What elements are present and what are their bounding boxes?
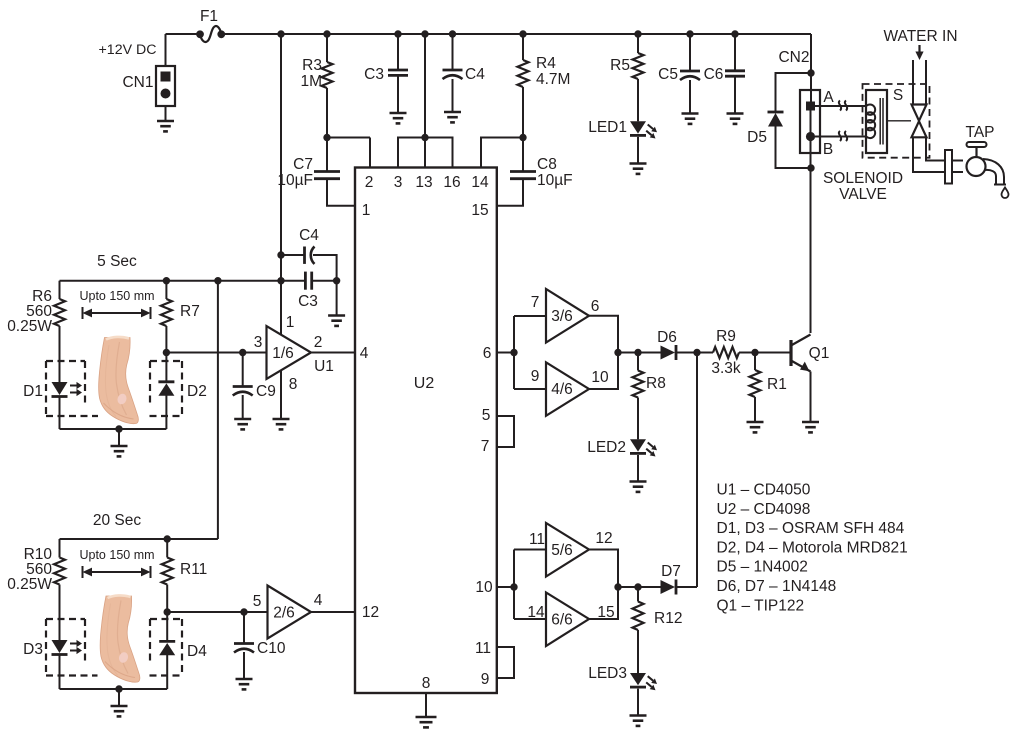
U2 pins 11-9 bracket	[497, 647, 514, 678]
wire 4/6 input	[514, 388, 546, 390]
svg-text:13: 13	[415, 174, 432, 191]
wire pin2 drop	[327, 138, 370, 168]
wire coil to valve	[888, 120, 911, 122]
capacitor C6	[725, 34, 745, 114]
node D7 riser top	[693, 349, 700, 356]
wire D2 down	[165, 396, 167, 430]
svg-text:5: 5	[482, 407, 491, 424]
resistor R5	[633, 34, 644, 121]
node sensor2 gnd	[115, 685, 122, 692]
label R1	[767, 376, 787, 393]
node pin13 junction	[421, 134, 428, 141]
label pin 10 (4/6)	[591, 369, 609, 386]
node R12 tap	[634, 583, 641, 590]
svg-text:C9: C9	[256, 383, 276, 400]
label pin 15	[471, 202, 488, 219]
svg-text:9: 9	[481, 671, 490, 688]
svg-text:0.25W: 0.25W	[7, 318, 52, 335]
svg-text:B: B	[823, 141, 833, 158]
IC U2 box	[355, 168, 497, 694]
svg-text:0.25W: 0.25W	[7, 576, 52, 593]
pipe below valve + elbow	[913, 138, 945, 173]
wire CN2 B to node	[810, 141, 812, 168]
hand image 1	[98, 332, 148, 428]
capacitor C4 (top)	[443, 34, 463, 112]
capacitor C7 10uF	[314, 138, 355, 206]
label C9	[256, 383, 276, 400]
svg-text:10µF: 10µF	[537, 172, 573, 189]
node buffers2-out join	[614, 583, 621, 590]
label D3	[23, 641, 43, 658]
svg-text:C10: C10	[257, 640, 286, 657]
svg-text:5 Sec: 5 Sec	[97, 253, 137, 270]
label +12V DC	[99, 42, 157, 58]
wire riser to 20sec	[217, 281, 219, 539]
label pin 12	[362, 604, 379, 621]
label C8 10uF	[537, 156, 573, 189]
label pin 15 (6/6)	[597, 604, 614, 621]
svg-text:LED1: LED1	[588, 119, 627, 136]
label 6/6	[551, 612, 573, 629]
wire LED2 to ground	[637, 455, 639, 482]
parts list	[717, 482, 908, 615]
label pin 3	[394, 174, 403, 191]
wire 6/6 output	[589, 587, 618, 619]
wire sensor2 gnd stub	[118, 689, 120, 706]
photodiode D4	[159, 641, 175, 655]
svg-text:TAP: TAP	[966, 124, 995, 141]
ground under U1 pin8	[273, 419, 290, 429]
svg-text:C4: C4	[465, 66, 485, 83]
wire 5/6 input	[514, 549, 546, 551]
label pin 4	[360, 345, 369, 362]
cable-break marks A	[839, 101, 847, 111]
wire sensor2 to 2/6 input	[167, 611, 267, 613]
transistor Q1 TIP122	[791, 335, 811, 423]
svg-text:R3: R3	[302, 57, 322, 74]
node R11-U1 tap	[164, 608, 171, 615]
svg-text:R1: R1	[767, 376, 787, 393]
svg-text:8: 8	[289, 376, 298, 393]
LED3	[630, 673, 657, 690]
diode D5	[768, 73, 812, 168]
label D4	[187, 643, 207, 660]
label R6 560 0.25W	[7, 288, 52, 335]
svg-text:CN2: CN2	[778, 49, 809, 66]
label C5	[658, 66, 678, 83]
node R1 tap	[751, 349, 758, 356]
svg-text:S: S	[893, 87, 903, 104]
ground under Q1	[802, 422, 819, 432]
water-in arrow	[915, 45, 923, 60]
label C7 10uF	[277, 156, 313, 189]
label R5	[610, 57, 630, 74]
dashed box D1	[46, 361, 182, 416]
svg-text:5: 5	[253, 593, 262, 610]
svg-text:7: 7	[481, 438, 490, 455]
node C3-C4 join	[333, 277, 340, 284]
ground under CN1	[157, 121, 174, 131]
svg-text:CN1: CN1	[122, 74, 153, 91]
op-amp buffer 5/6	[546, 523, 589, 577]
label pin 2	[365, 174, 374, 191]
svg-text:U1 – CD4050: U1 – CD4050	[717, 482, 811, 499]
svg-text:15: 15	[471, 202, 488, 219]
resistor R7	[161, 281, 172, 382]
label pin 7	[481, 438, 490, 455]
wire R9 to Q1 base	[739, 352, 790, 354]
ground under C6	[727, 114, 744, 124]
wire rail to CN2	[810, 34, 812, 102]
svg-text:6: 6	[483, 345, 492, 362]
resistor R9 3.3k	[713, 347, 739, 358]
wire pins 3-16 bridge	[398, 138, 453, 168]
diode D7	[661, 580, 677, 595]
wire join to D6	[618, 352, 661, 354]
label 3.3k	[711, 360, 741, 377]
svg-text:VALVE: VALVE	[839, 186, 887, 203]
label D2	[187, 383, 207, 400]
node CN2 bottom	[807, 164, 814, 171]
svg-text:14: 14	[527, 604, 545, 621]
node R7-U1 tap	[163, 349, 170, 356]
LED2	[630, 439, 657, 456]
node rail-pin13	[421, 30, 428, 37]
wire split riser (5/6,6/6)	[513, 550, 515, 620]
wire 2/6 out to pin12	[311, 611, 355, 613]
svg-text:C7: C7	[293, 156, 313, 173]
ground under C10	[236, 679, 253, 689]
svg-text:10: 10	[591, 369, 609, 386]
photodiode D1 (IR LED)	[52, 382, 83, 397]
label 4/6	[551, 381, 573, 398]
node C10 tap	[240, 608, 247, 615]
label 1/6	[272, 345, 294, 362]
svg-text:12: 12	[362, 604, 379, 621]
node R7 top	[163, 277, 170, 284]
svg-text:16: 16	[443, 174, 460, 191]
label 5/6	[551, 542, 573, 559]
label F1	[200, 8, 218, 25]
node C4-series top	[277, 251, 284, 258]
svg-text:+12V DC: +12V DC	[99, 42, 157, 58]
resistor R12	[633, 587, 644, 673]
diode D6	[661, 345, 677, 360]
label pin 3	[254, 334, 263, 351]
node buffers-out join	[614, 349, 621, 356]
label Upto 150 mm (1)	[79, 289, 154, 303]
label R7	[180, 303, 200, 320]
range arrow (2)	[83, 566, 151, 578]
svg-text:3: 3	[254, 334, 263, 351]
label C4	[465, 66, 485, 83]
resistor R8	[633, 353, 644, 440]
label C4 series	[299, 227, 319, 244]
svg-text:C6: C6	[704, 66, 724, 83]
label pin 1	[362, 202, 371, 219]
photodiode D2	[158, 382, 174, 396]
ground under LED1	[630, 164, 647, 174]
cable-break marks B	[839, 131, 847, 141]
ground under LED2	[630, 482, 647, 492]
wire sensor1 to U1 input	[166, 352, 266, 354]
resistor R10 560	[54, 539, 65, 640]
node C3-series	[277, 277, 284, 284]
node rail-C5	[686, 30, 693, 37]
svg-text:6: 6	[591, 298, 600, 315]
label terminal B	[823, 141, 833, 158]
label LED3	[588, 665, 627, 682]
svg-text:3/6: 3/6	[551, 308, 573, 325]
wire D7 to riser	[676, 586, 697, 588]
label pin 8	[422, 675, 431, 692]
ground under LED3	[630, 716, 647, 726]
svg-text:R7: R7	[180, 303, 200, 320]
wire CN2 inner	[810, 111, 812, 133]
svg-text:R5: R5	[610, 57, 630, 74]
svg-text:Upto 150 mm: Upto 150 mm	[79, 548, 154, 562]
label pin 13	[415, 174, 432, 191]
node rail-branch	[277, 30, 284, 37]
label pin 12 (5/6)	[595, 530, 612, 547]
wire A to solenoid	[815, 105, 867, 107]
capacitor C3 (series)	[281, 272, 337, 290]
svg-text:A: A	[823, 89, 834, 106]
label CN1	[122, 74, 153, 91]
label pin 16	[443, 174, 460, 191]
pipe above valve	[913, 60, 926, 105]
label pin 11 (5/6)	[529, 531, 545, 548]
hand image 2	[98, 591, 148, 687]
op-amp buffer U1 1/6	[267, 326, 312, 379]
label U1	[314, 358, 334, 375]
ground under U2 pin8	[416, 717, 437, 727]
label pin 9	[481, 671, 490, 688]
wire rail branch down	[280, 34, 282, 335]
svg-text:9: 9	[531, 368, 540, 385]
svg-text:Q1 – TIP122: Q1 – TIP122	[717, 597, 805, 614]
wire 5/6 output	[589, 550, 618, 588]
svg-text:4/6: 4/6	[551, 381, 573, 398]
connector CN1	[156, 66, 175, 106]
svg-text:C5: C5	[658, 66, 678, 83]
svg-text:D6, D7 – 1N4148: D6, D7 – 1N4148	[717, 578, 837, 595]
svg-text:6/6: 6/6	[551, 612, 573, 629]
solenoid dashed box	[863, 84, 930, 158]
wire sensor1 bottom	[60, 428, 167, 430]
capacitor C10	[234, 612, 254, 679]
node buffers2-in split	[510, 583, 517, 590]
connector CN2	[800, 90, 820, 153]
wire CN1 to rail	[165, 34, 167, 66]
capacitor C4 (series)	[281, 247, 337, 281]
svg-text:D6: D6	[657, 329, 677, 346]
svg-text:D1: D1	[23, 383, 43, 400]
node R11 top	[164, 535, 171, 542]
wire pin6 out	[497, 352, 514, 354]
solenoid coil S	[866, 90, 887, 153]
label 5 Sec	[97, 253, 137, 270]
LED1	[630, 121, 657, 138]
tap flange	[945, 150, 952, 184]
label LED2	[587, 439, 626, 456]
svg-text:11: 11	[475, 640, 491, 657]
svg-text:11: 11	[529, 531, 545, 548]
tap body	[967, 157, 986, 176]
resistor R4	[518, 34, 529, 138]
wire sensor1 gnd stub	[118, 429, 120, 446]
wire 3/6 input	[514, 315, 546, 317]
svg-text:2/6: 2/6	[273, 605, 295, 622]
label pin 7 (3/6)	[531, 294, 540, 311]
tap handle	[967, 142, 987, 158]
ground under C4	[444, 112, 461, 122]
node D5 top	[807, 69, 814, 76]
svg-text:U1: U1	[314, 358, 334, 375]
ground under R1	[747, 422, 764, 432]
valve bowtie	[912, 105, 927, 138]
svg-text:12: 12	[595, 530, 612, 547]
svg-text:R11: R11	[180, 561, 207, 578]
resistor R11	[162, 539, 173, 641]
svg-text:D2: D2	[187, 383, 207, 400]
svg-text:R12: R12	[654, 610, 682, 627]
label WATER IN	[883, 28, 957, 45]
wire +12V rail left	[166, 33, 201, 35]
label pin 2	[314, 334, 323, 351]
wire pin10 out	[497, 586, 514, 588]
svg-text:D2, D4 – Motorola MRD821: D2, D4 – Motorola MRD821	[717, 539, 908, 556]
tap spout	[983, 159, 1006, 185]
svg-text:D7: D7	[661, 563, 681, 580]
op-amp buffer 3/6	[546, 289, 589, 343]
wire sensor2 rail	[60, 538, 218, 540]
dashed box D4	[150, 619, 182, 676]
node C9 tap	[239, 349, 246, 356]
wire join to D7	[618, 586, 661, 588]
op-amp buffer 6/6	[546, 593, 589, 647]
label R10 560 0.25W	[7, 546, 52, 593]
label D1	[23, 383, 43, 400]
node buffers-in split	[510, 349, 517, 356]
label pin 9 (4/6)	[531, 368, 540, 385]
wire series caps to ground	[336, 281, 338, 316]
resistor R6 560	[54, 281, 65, 382]
svg-text:10: 10	[475, 579, 493, 596]
capacitor C3 (top)	[388, 34, 408, 113]
node R4-C8	[519, 134, 526, 141]
svg-text:F1: F1	[200, 8, 218, 25]
svg-text:LED2: LED2	[587, 439, 626, 456]
svg-text:1M: 1M	[300, 73, 322, 90]
svg-text:SOLENOID: SOLENOID	[823, 170, 903, 187]
ground sensor1	[111, 446, 128, 456]
node R3-C7	[323, 134, 330, 141]
label pin 4 (2/6)	[314, 592, 323, 609]
svg-text:R9: R9	[716, 328, 736, 345]
label pin 6	[483, 345, 492, 362]
capacitor C8 10uF	[497, 138, 536, 206]
svg-text:R8: R8	[646, 375, 666, 392]
label C10	[257, 640, 286, 657]
svg-text:5/6: 5/6	[551, 542, 573, 559]
label pin 1 (U1)	[286, 314, 295, 331]
label pin 14 (6/6)	[527, 604, 545, 621]
capacitor C9	[233, 353, 253, 420]
svg-text:U2: U2	[414, 375, 435, 392]
svg-text:1: 1	[362, 202, 371, 219]
node 20sec riser top	[214, 277, 221, 284]
node rail-R5	[634, 30, 641, 37]
ground under C9	[234, 419, 251, 429]
wire D6 to R9	[676, 352, 713, 354]
svg-text:D5 – 1N4002: D5 – 1N4002	[717, 559, 808, 576]
wire B to solenoid	[815, 136, 867, 138]
label C3 series	[298, 293, 318, 310]
label R4 4.7M	[536, 55, 570, 88]
label Q1	[809, 345, 830, 362]
node rail-C3	[394, 30, 401, 37]
wire riser to D7	[696, 353, 698, 588]
wire pin14 drop	[481, 138, 523, 168]
svg-text:1/6: 1/6	[272, 345, 294, 362]
wire D3 down	[59, 655, 61, 689]
svg-text:4.7M: 4.7M	[536, 71, 570, 88]
label U2	[414, 375, 435, 392]
label C3	[364, 66, 384, 83]
ground sensor2	[111, 706, 128, 716]
svg-text:D3: D3	[23, 641, 43, 658]
photodiode D3 (IR LED)	[52, 640, 83, 655]
label LED1	[588, 119, 627, 136]
wire 4/6 output	[589, 353, 618, 390]
label pin 14	[471, 174, 489, 191]
wire U1 out to pin4	[311, 352, 355, 354]
svg-text:3: 3	[394, 174, 403, 191]
label R3 1M	[300, 57, 322, 90]
dashed box D2	[150, 361, 182, 416]
wire D4 down	[166, 655, 168, 689]
dashed box D3	[46, 619, 182, 676]
label D5	[747, 129, 767, 146]
label S	[893, 87, 903, 104]
fuse F1	[196, 26, 225, 42]
op-amp buffer U1 2/6	[268, 586, 312, 639]
label 2/6	[273, 605, 295, 622]
svg-text:C8: C8	[537, 156, 557, 173]
wire U1 pin8 to gnd	[280, 370, 282, 419]
node rail-C4	[449, 30, 456, 37]
label pin 11	[475, 640, 491, 657]
label D7	[661, 563, 681, 580]
svg-text:3.3k: 3.3k	[711, 360, 741, 377]
node sensor1 gnd	[115, 425, 122, 432]
resistor R3	[322, 34, 333, 138]
svg-text:2: 2	[365, 174, 374, 191]
svg-text:D4: D4	[187, 643, 207, 660]
svg-text:7: 7	[531, 294, 540, 311]
label R8	[646, 375, 666, 392]
label pin 5 (2/6)	[253, 593, 262, 610]
label R12	[654, 610, 682, 627]
range arrow (1)	[83, 307, 151, 319]
ground under C5	[682, 114, 699, 124]
label pin 10	[475, 579, 493, 596]
svg-text:Q1: Q1	[809, 345, 830, 362]
label SOLENOID VALVE	[823, 170, 903, 203]
label CN2	[778, 49, 809, 66]
tap stub	[952, 161, 963, 173]
